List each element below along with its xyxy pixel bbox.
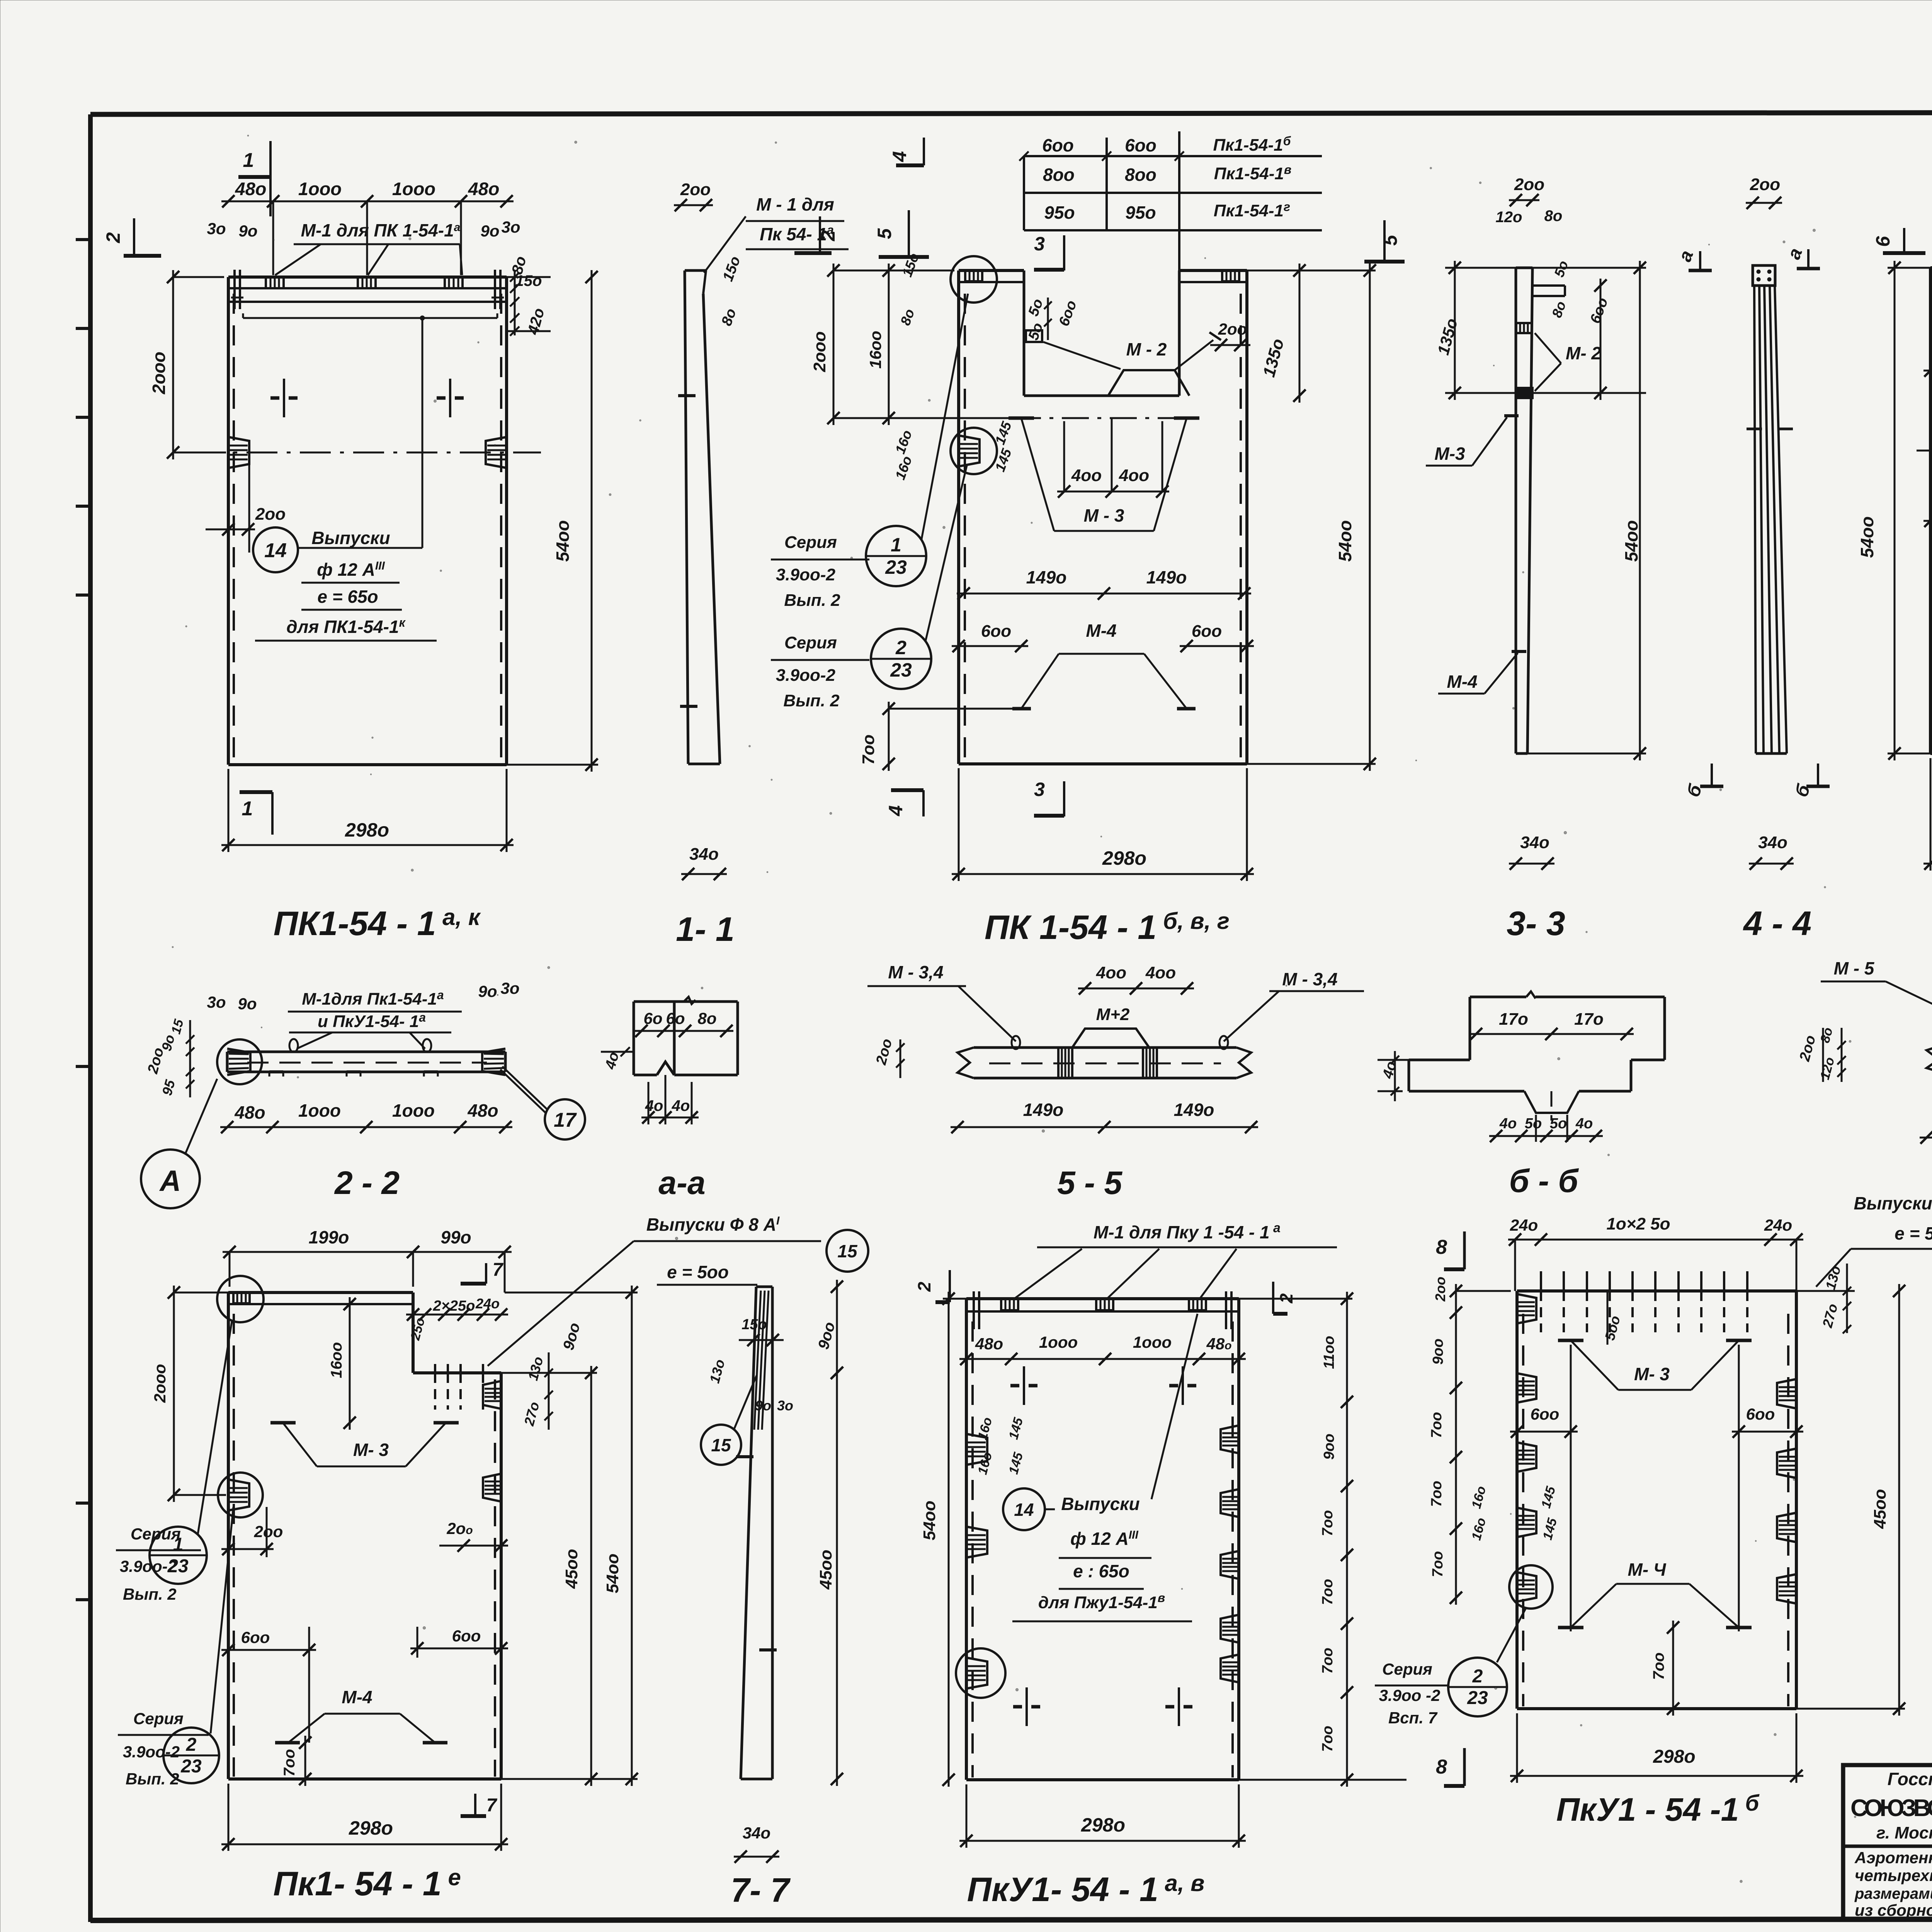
svg-text:2оо: 2оо xyxy=(1218,320,1247,338)
svg-text:М - 3,4: М - 3,4 xyxy=(888,962,943,982)
panel d dims 200 200 xyxy=(1923,451,1932,528)
svg-text:Серия: Серия xyxy=(133,1709,184,1728)
section 1-1 member outline xyxy=(678,270,720,764)
svg-text:23: 23 xyxy=(1467,1688,1488,1708)
svg-text:95о: 95о xyxy=(1044,202,1075,223)
svg-text:9о: 9о xyxy=(238,995,257,1013)
svg-text:6оо: 6оо xyxy=(1531,1405,1560,1423)
svg-text:6: 6 xyxy=(1872,236,1894,247)
svg-text:6оо: 6оо xyxy=(1125,135,1156,155)
dim 600 M-4 600 on panel b,v,g xyxy=(952,621,1254,652)
section 2-2 end plates hatched xyxy=(217,1039,505,1084)
panel b top flag 8 xyxy=(1436,1231,1464,1269)
svg-text:г. Москва: г. Москва xyxy=(1876,1823,1932,1842)
panel b M-4 trapezoid xyxy=(1558,1560,1752,1628)
panel e seriya callout 2/23 xyxy=(118,1507,233,1788)
svg-text:7: 7 xyxy=(486,1795,498,1816)
svg-text:23: 23 xyxy=(890,659,912,681)
section 4-4 dim 340 and label xyxy=(1743,833,1811,942)
panel PK1-54-1 b,v,g outline with recess xyxy=(959,131,1247,764)
svg-text:3о: 3о xyxy=(207,219,226,238)
dims 1350 200 5400 right of panel b,v,g xyxy=(1247,264,1376,771)
svg-text:е = 5оо: е = 5оо xyxy=(667,1262,729,1282)
panel e dim 2980 and bottom flag 7 xyxy=(221,1784,508,1851)
svg-text:8о: 8о xyxy=(697,1009,716,1027)
panel a,v dim 480 1000 1000 480 xyxy=(959,1333,1246,1365)
svg-text:1ооо: 1ооо xyxy=(298,1100,341,1121)
svg-text:8: 8 xyxy=(1436,1236,1447,1259)
section 3-3 labels 50 80 600 1350 5400 xyxy=(1434,259,1646,760)
svg-text:45оо: 45оо xyxy=(816,1550,835,1590)
svg-text:2: 2 xyxy=(895,637,906,658)
svg-text:Аэротенки - смесители: Аэротенки - смесители xyxy=(1854,1849,1932,1867)
svg-text:3.9оо-2: 3.9оо-2 xyxy=(776,565,836,584)
panel b dims 600 600 xyxy=(1510,1345,1803,1631)
svg-text:6оо: 6оо xyxy=(1042,135,1074,155)
svg-text:15о: 15о xyxy=(515,272,542,289)
svg-text:14: 14 xyxy=(264,539,287,562)
svg-text:М-1 для Пку 1 -54 - 1 а: М-1 для Пку 1 -54 - 1 а xyxy=(1094,1221,1281,1242)
svg-text:4 - 4: 4 - 4 xyxy=(1743,904,1811,942)
section 2-2 bar xyxy=(227,1052,505,1077)
panel b outline xyxy=(1517,1291,1796,1709)
svg-text:1ооо: 1ооо xyxy=(392,179,435,199)
section 4-4 top dim 200 xyxy=(1746,175,1782,209)
svg-text:2: 2 xyxy=(102,232,124,243)
svg-text:54оо: 54оо xyxy=(1621,520,1641,561)
dim 200 and leader Vypuski block on panel a,k xyxy=(206,318,437,641)
svg-text:4о: 4о xyxy=(1575,1116,1593,1132)
svg-text:7оо: 7оо xyxy=(1320,1726,1336,1752)
svg-text:7оо: 7оо xyxy=(1320,1648,1336,1674)
panel a,v right side dims 1100 900 700s xyxy=(1239,1292,1406,1787)
svg-text:М- 2: М- 2 xyxy=(1566,343,1601,363)
section 1-1 bottom dim 340 xyxy=(681,845,727,880)
M-3 trapezoid on panel b,v,g xyxy=(1009,418,1199,531)
labels 150 80 left of panel b,v,g top xyxy=(897,251,922,328)
svg-text:3о: 3о xyxy=(207,993,226,1011)
svg-text:4оо: 4оо xyxy=(1096,963,1126,982)
panel a,v dim 5400 left xyxy=(920,1292,966,1787)
svg-text:1ооо: 1ооо xyxy=(1039,1333,1078,1351)
svg-text:8: 8 xyxy=(1436,1756,1447,1778)
svg-text:15: 15 xyxy=(837,1241,858,1261)
panel PK1-54-1d outline xyxy=(1930,262,1932,753)
title block outer box xyxy=(1843,1765,1932,1920)
panel a,v dim 2980 and label xyxy=(959,1784,1246,1908)
callout vypuski f8AI for panel b xyxy=(1816,1193,1932,1287)
panel e vypuski bars at step xyxy=(406,1296,508,1410)
svg-text:М-1для Пк1-54-1а: М-1для Пк1-54-1а xyxy=(302,988,444,1009)
svg-text:М-4: М-4 xyxy=(1447,672,1477,692)
svg-text:5: 5 xyxy=(874,228,895,239)
svg-text:2 - 2: 2 - 2 xyxy=(334,1165,400,1201)
svg-text:48о: 48о xyxy=(467,1100,498,1121)
svg-text:54оо: 54оо xyxy=(603,1554,622,1594)
plates on panel b,v,g top bar circled xyxy=(951,256,1239,474)
svg-text:4: 4 xyxy=(885,805,906,816)
section 7-7 member xyxy=(736,1287,777,1779)
svg-text:34о: 34о xyxy=(689,845,719,864)
svg-text:2: 2 xyxy=(1472,1666,1483,1687)
svg-text:М-3: М-3 xyxy=(1434,444,1465,464)
svg-text:9оо: 9оо xyxy=(1321,1434,1337,1460)
svg-text:Пк1-54-1б: Пк1-54-1б xyxy=(1213,134,1291,155)
section 7-7 labels 150 130 90 30 xyxy=(706,1316,793,1413)
section a-a block xyxy=(634,997,738,1075)
svg-text:3.9оо -2: 3.9оо -2 xyxy=(1379,1686,1440,1704)
svg-text:34о: 34о xyxy=(1758,833,1787,852)
svg-text:2ооо: 2ооо xyxy=(149,352,169,395)
right small dims 80 150 420 xyxy=(507,254,551,337)
title block left: Gosstroy SSSR and logo xyxy=(1843,1769,1932,1919)
svg-text:для ПК1-54-1к: для ПК1-54-1к xyxy=(286,616,406,637)
svg-text:5о: 5о xyxy=(1525,1116,1542,1132)
panel a,v header M-1 dlya PKU1-54-1a xyxy=(1014,1221,1337,1299)
panel d section flags 6 6 xyxy=(1872,228,1932,255)
svg-text:15: 15 xyxy=(711,1435,731,1455)
section 4-4 member bundle xyxy=(1747,265,1793,753)
svg-text:149о: 149о xyxy=(1026,567,1067,587)
svg-text:24о: 24о xyxy=(1764,1216,1792,1234)
section 3-3 top dims 200 120 80 xyxy=(1496,175,1563,226)
svg-text:Пк1-54-1в: Пк1-54-1в xyxy=(1214,163,1291,183)
labels 160 160 145 145 near left plate xyxy=(892,419,1015,482)
svg-text:М- 3: М- 3 xyxy=(1634,1364,1670,1384)
svg-text:3о: 3о xyxy=(777,1398,793,1413)
section 6-6 bar xyxy=(1927,1045,1932,1073)
svg-text:149о: 149о xyxy=(1174,1100,1214,1120)
panel e right edge plate under step xyxy=(483,1381,501,1409)
svg-text:2: 2 xyxy=(186,1735,197,1755)
section 6-6 bottom dim 1490 1490 xyxy=(1920,1110,1932,1144)
panel b top dim 240 10x250 240 xyxy=(1508,1214,1803,1291)
panel a,v right edge plates xyxy=(1221,1425,1239,1682)
section 2-2 circle 17 callout xyxy=(500,1066,585,1139)
panel e top-left circled plate xyxy=(217,1276,264,1322)
svg-text:А: А xyxy=(159,1165,181,1197)
svg-text:М+2: М+2 xyxy=(1096,1005,1130,1024)
section 7-7 dim 340 and label xyxy=(731,1824,791,1909)
svg-text:7оо: 7оо xyxy=(1650,1652,1667,1680)
dims 2000 1600 on panel b,v,g xyxy=(810,264,1012,425)
svg-text:1: 1 xyxy=(243,149,254,172)
panel e top dim 1990 990 xyxy=(223,1227,512,1293)
svg-text:298о: 298о xyxy=(1653,1747,1695,1767)
seriya callout 1/23 on panel b,v,g xyxy=(771,294,968,610)
panel a,v small dims 160 145 cluster xyxy=(975,1416,1026,1476)
svg-text:23: 23 xyxy=(167,1556,189,1577)
svg-text:Серия: Серия xyxy=(784,633,837,652)
panel b left edge plates xyxy=(1509,1294,1553,1609)
svg-text:34о: 34о xyxy=(743,1824,770,1842)
svg-text:Серия: Серия xyxy=(784,533,837,552)
panel a,v vypuski block 14 xyxy=(1003,1314,1197,1621)
svg-text:7оо: 7оо xyxy=(1429,1412,1445,1438)
section 5-5 bar xyxy=(957,1029,1251,1078)
panel e dims 4500 5400 right xyxy=(222,1286,638,1786)
svg-text:2оо: 2оо xyxy=(1514,175,1544,194)
section 2-2 left small dims xyxy=(145,1017,194,1097)
panel e outline xyxy=(228,1293,501,1779)
svg-text:5 - 5: 5 - 5 xyxy=(1057,1165,1122,1201)
svg-text:ф 12 АIII: ф 12 АIII xyxy=(1070,1529,1138,1549)
svg-text:11оо: 11оо xyxy=(1321,1336,1337,1369)
svg-text:17: 17 xyxy=(554,1109,577,1131)
svg-text:Вып. 2: Вып. 2 xyxy=(784,591,840,610)
section 4-4 a-a flags xyxy=(1675,245,1820,270)
svg-text:54оо: 54оо xyxy=(553,520,573,561)
panel b bottom flag 8 and dim 2980 xyxy=(1436,1713,1803,1786)
svg-text:23: 23 xyxy=(180,1756,202,1777)
section b-b dims 170 170 40 40 50 50 40 xyxy=(1378,1010,1634,1142)
svg-text:199о: 199о xyxy=(309,1227,349,1247)
svg-text:2оо: 2оо xyxy=(254,1522,283,1541)
panel d dim 1490 1490 xyxy=(1923,344,1932,377)
svg-text:149о: 149о xyxy=(1146,567,1187,587)
svg-text:17о: 17о xyxy=(1574,1010,1604,1029)
svg-text:298о: 298о xyxy=(1102,847,1146,869)
svg-text:17о: 17о xyxy=(1499,1010,1528,1029)
panel e seriya callout 1/23 xyxy=(116,1321,232,1603)
callout vypuski f8AI for panel e xyxy=(488,1214,868,1366)
svg-text:15о: 15о xyxy=(742,1316,767,1333)
svg-text:Пк 54- 1а: Пк 54- 1а xyxy=(760,223,834,244)
svg-text:8оо: 8оо xyxy=(1125,165,1156,185)
M-4 trapezoid on panel b,v,g xyxy=(1012,654,1196,709)
svg-text:1: 1 xyxy=(242,798,253,820)
mid side plates and centerline on panel a,k xyxy=(193,437,541,553)
vertical dim 2000 on panel a,k xyxy=(149,270,226,459)
section 5-5 bottom dim 1490 1490 xyxy=(951,1100,1258,1133)
panel a,v top bar plates xyxy=(974,1291,1231,1329)
section 6-6 left dims 200 80 120 xyxy=(1796,1026,1846,1082)
section flags 5 left and right xyxy=(874,210,1405,262)
svg-text:7оо: 7оо xyxy=(1320,1510,1336,1536)
panel a,v section flags 2 2 xyxy=(914,1270,1296,1314)
svg-text:Вып. 2: Вып. 2 xyxy=(783,691,840,710)
svg-text:М - 1 для: М - 1 для xyxy=(756,194,834,214)
panel b right edge plates xyxy=(1777,1379,1796,1604)
panel b M-3 trapezoid xyxy=(1558,1291,1752,1390)
panel d mid plates and centerline xyxy=(1917,435,1932,466)
svg-text:ПкУ1 - 54 -1 б: ПкУ1 - 54 -1 б xyxy=(1556,1791,1760,1828)
svg-text:1: 1 xyxy=(891,534,901,556)
svg-text:2оо: 2оо xyxy=(680,180,711,199)
svg-text:а-а: а-а xyxy=(658,1165,705,1201)
section 7-7 dims 900 4500 xyxy=(815,1280,843,1786)
seriya callout 2/23 on panel b,v,g xyxy=(771,466,967,710)
svg-text:2оо: 2оо xyxy=(255,505,286,524)
svg-text:9о: 9о xyxy=(478,982,497,1000)
panel e dims 2000 1600 left inside xyxy=(151,1286,356,1502)
svg-text:298о: 298о xyxy=(1081,1814,1125,1836)
section b-b shape xyxy=(1409,992,1665,1121)
svg-text:14: 14 xyxy=(1014,1500,1034,1520)
panel b dim 700 bottom xyxy=(1650,1621,1679,1716)
svg-text:для Пжу1-54-1в: для Пжу1-54-1в xyxy=(1038,1591,1165,1612)
panel a,v center marks xyxy=(1010,1366,1196,1726)
svg-text:3: 3 xyxy=(1034,233,1045,255)
panel e top section flag 7 xyxy=(461,1260,504,1284)
panel e dims 200 200 xyxy=(221,1507,508,1557)
panel PK1-54-1a,k top dimension 480 1000 1000 480 xyxy=(221,179,514,275)
svg-text:8о: 8о xyxy=(1544,207,1563,224)
svg-text:12о: 12о xyxy=(1496,209,1522,226)
svg-text:2ооо: 2ооо xyxy=(810,331,829,372)
section 6-6 callout M-5 and dims 450 450 xyxy=(1821,958,1932,1049)
svg-text:7оо: 7оо xyxy=(859,735,878,765)
svg-text:95о: 95о xyxy=(1125,202,1156,223)
panel PK1-54-1a,k top section mark 1 xyxy=(238,141,270,216)
svg-text:24о: 24о xyxy=(1510,1216,1538,1234)
svg-text:298о: 298о xyxy=(349,1817,393,1839)
svg-text:б - б: б - б xyxy=(1509,1163,1579,1199)
section 2-2 bottom dim 480 1000 1000 480 xyxy=(220,1100,512,1133)
svg-text:М - 5: М - 5 xyxy=(1834,958,1875,978)
svg-text:М - 3,4: М - 3,4 xyxy=(1282,969,1337,989)
svg-text:23: 23 xyxy=(885,556,907,578)
svg-text:М-4: М-4 xyxy=(342,1687,372,1707)
svg-text:7оо: 7оо xyxy=(281,1749,298,1776)
svg-text:четырехкоридорные с: четырехкоридорные с xyxy=(1855,1866,1932,1884)
labels 30 90 M-1 dlya PK1-54-1a 90 30 xyxy=(207,218,520,275)
svg-text:8оо: 8оо xyxy=(1043,165,1075,185)
svg-text:1о×2 5о: 1о×2 5о xyxy=(1606,1214,1670,1233)
svg-text:1: 1 xyxy=(173,1534,184,1555)
panel e M-3 trapezoid xyxy=(270,1423,459,1466)
svg-text:48о: 48о xyxy=(468,179,500,199)
dim 1490 1490 on panel b,v,g xyxy=(957,567,1251,600)
svg-text:М - 3: М - 3 xyxy=(1084,505,1124,526)
svg-text:45оо: 45оо xyxy=(562,1549,581,1589)
svg-text:24о: 24о xyxy=(475,1296,500,1311)
svg-text:3: 3 xyxy=(1034,779,1045,800)
svg-text:48о: 48о xyxy=(235,179,267,199)
panel b dim 4500 right xyxy=(1796,1284,1905,1716)
svg-text:Вып. 2: Вып. 2 xyxy=(123,1585,177,1603)
svg-text:М - 2: М - 2 xyxy=(1126,339,1167,359)
svg-text:1ооо: 1ооо xyxy=(1133,1333,1172,1351)
svg-text:4о: 4о xyxy=(672,1097,690,1114)
svg-text:6оо: 6оо xyxy=(981,622,1011,641)
svg-text:4оо: 4оо xyxy=(1119,466,1149,485)
panel d dim 5400 xyxy=(1857,261,1930,760)
svg-text:3о: 3о xyxy=(500,979,519,997)
svg-text:е = 65о: е = 65о xyxy=(317,587,378,607)
svg-text:размерами коридора 9×5,2×15о: размерами коридора 9×5,2×15о xyxy=(1854,1885,1932,1902)
svg-text:и ПкУ1-54- 1а: и ПкУ1-54- 1а xyxy=(318,1010,426,1031)
panel b small dims 160 145 xyxy=(1469,1485,1560,1542)
section 3-3 bottom dim 340 and label xyxy=(1507,833,1565,942)
svg-text:2оо: 2оо xyxy=(1750,175,1780,194)
svg-text:Выпуски: Выпуски xyxy=(311,528,390,548)
svg-text:Вып. 2: Вып. 2 xyxy=(126,1770,179,1788)
svg-text:Пк1- 54 - 1 е: Пк1- 54 - 1 е xyxy=(273,1864,461,1903)
svg-text:3- 3: 3- 3 xyxy=(1507,904,1565,942)
svg-text:9о: 9о xyxy=(755,1398,771,1413)
bottom dim 2980 and flags on panel b,v,g xyxy=(885,768,1254,881)
svg-text:45оо: 45оо xyxy=(1871,1489,1889,1529)
panel e dims 600 600 xyxy=(221,1627,508,1743)
panel b vypuski row on top edge xyxy=(1541,1271,1747,1332)
svg-text:2ооо: 2ооо xyxy=(151,1364,169,1403)
svg-text:298о: 298о xyxy=(345,819,389,841)
svg-text:7- 7: 7- 7 xyxy=(731,1871,791,1909)
svg-text:1ооо: 1ооо xyxy=(298,179,342,199)
svg-text:6оо: 6оо xyxy=(1192,622,1222,641)
panel b left dims 200 900 700 700 700 xyxy=(1429,1277,1511,1605)
svg-text:ф 12 АIII: ф 12 АIII xyxy=(317,560,385,580)
svg-text:9о: 9о xyxy=(480,222,499,240)
svg-text:4оо: 4оо xyxy=(1071,466,1102,485)
svg-text:М- Ч: М- Ч xyxy=(1628,1560,1667,1580)
svg-text:3.9оо-2: 3.9оо-2 xyxy=(776,666,836,685)
svg-text:1- 1: 1- 1 xyxy=(676,910,735,948)
panel e M-4 trapezoid xyxy=(275,1687,447,1743)
vertical dim 5400 on panel a,k xyxy=(507,270,598,772)
svg-text:6оо: 6оо xyxy=(241,1628,270,1646)
section 7-7 circle 15 xyxy=(701,1376,757,1465)
section 5-5 dims 400 400 M-2 200 xyxy=(873,963,1194,1078)
panel b seriya callout 2/23 xyxy=(1375,1607,1526,1727)
svg-text:54оо: 54оо xyxy=(1335,520,1355,561)
svg-text:Всп. 7: Всп. 7 xyxy=(1388,1709,1438,1727)
panel e mid plates circled xyxy=(218,1473,501,1517)
svg-text:Госстрой: Госстрой xyxy=(1888,1769,1932,1789)
svg-text:5: 5 xyxy=(1379,235,1401,246)
section 1-1 callout M-1 dlya PK54-1a xyxy=(704,194,849,273)
svg-text:6оо: 6оо xyxy=(452,1627,481,1645)
svg-text:16оо: 16оо xyxy=(328,1342,345,1378)
panel e dim 700 xyxy=(281,1736,311,1786)
panel a,v outline xyxy=(966,1299,1239,1780)
svg-text:4оо: 4оо xyxy=(1145,963,1176,982)
section 2-2 lifting loops xyxy=(289,1039,298,1052)
section 1-1 labels 150 80 xyxy=(718,254,743,328)
svg-text:М- 3: М- 3 xyxy=(353,1440,389,1460)
panel d dim 2980 and label xyxy=(1923,758,1932,944)
svg-text:Серия: Серия xyxy=(1382,1660,1432,1678)
svg-text:е : 65о: е : 65о xyxy=(1073,1561,1129,1581)
svg-text:7оо: 7оо xyxy=(1320,1579,1336,1605)
svg-text:48о: 48о xyxy=(234,1102,265,1122)
svg-text:5о: 5о xyxy=(1550,1116,1567,1132)
svg-text:9о: 9о xyxy=(238,222,257,240)
mini table 600/800/950 variants xyxy=(1019,131,1322,270)
svg-text:М-4: М-4 xyxy=(1086,621,1116,641)
svg-text:9оо: 9оо xyxy=(1430,1338,1446,1365)
section flags 2-2 on panel a,k xyxy=(102,216,839,256)
center marks on panel a,k xyxy=(283,379,285,417)
panel PK1-54-1a,k outline xyxy=(228,277,507,765)
svg-text:34о: 34о xyxy=(1520,833,1549,852)
section 1-1 top dim 200 xyxy=(674,180,713,211)
svg-text:16оо: 16оо xyxy=(866,331,884,369)
section 5-5 loops and leaders M-3,4 xyxy=(867,962,1364,1049)
svg-text:7оо: 7оо xyxy=(1429,1481,1445,1507)
dim 400 400 on panel b,v,g xyxy=(1057,418,1169,498)
panel e dims 130 270 900 right xyxy=(521,1321,583,1430)
svg-text:6оо: 6оо xyxy=(1746,1405,1775,1423)
embedded plates M-1 on top bar xyxy=(231,270,504,309)
svg-text:149о: 149о xyxy=(1023,1100,1064,1120)
svg-text:7оо: 7оо xyxy=(1430,1551,1446,1577)
panel b dims 130 270 right top xyxy=(1796,1264,1855,1333)
svg-text:е = 5оо: е = 5оо xyxy=(1895,1223,1932,1243)
svg-text:из сборного железобетона: из сборного железобетона xyxy=(1855,1901,1932,1919)
svg-text:48о: 48о xyxy=(975,1335,1003,1353)
